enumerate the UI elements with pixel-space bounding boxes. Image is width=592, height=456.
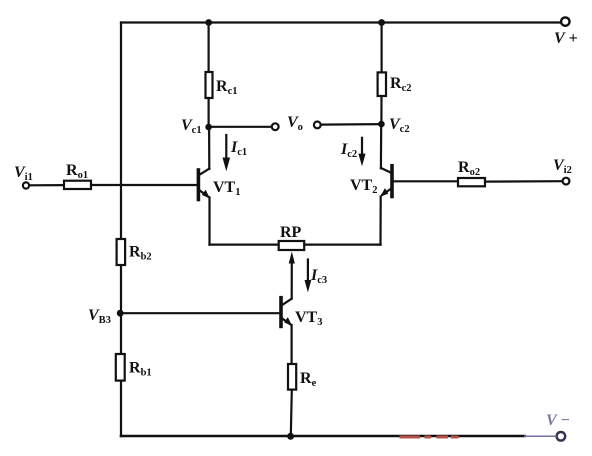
terminal Vo left: [272, 123, 279, 130]
terminal V+: [561, 17, 569, 25]
terminal V-: [557, 432, 566, 441]
wire VT2 collector: [380, 124, 383, 168]
node Vc1: [205, 124, 212, 131]
svg-text:V +: V +: [554, 30, 578, 47]
wire Rc2 to Vc2: [380, 96, 382, 124]
wire VB3 to VT3 base: [120, 312, 279, 314]
resistor Rb2: [117, 239, 126, 265]
wire VT2 emitter to RP: [304, 244, 380, 246]
node junction top Rc2: [378, 19, 385, 26]
svg-text:RP: RP: [280, 224, 302, 241]
wire VT1 emitter to RP: [210, 244, 279, 246]
wire top rail: [121, 21, 561, 23]
current arrow Ic3: [305, 260, 312, 293]
wire Ro1 to VT1 base: [91, 184, 197, 186]
node junction bottom Re: [287, 433, 294, 440]
transistor VT2: [380, 166, 392, 197]
svg-text:V −: V −: [546, 412, 570, 429]
terminal Vi2: [563, 178, 570, 185]
node Vc2: [378, 121, 385, 128]
wire VT1 collector: [208, 127, 210, 169]
transistor VT1: [198, 169, 210, 200]
transistor VT3: [281, 298, 292, 327]
wire Re to bottom rail: [291, 390, 292, 436]
wire Rc1 to Vc1: [208, 98, 210, 127]
resistor Rc1: [206, 72, 213, 98]
resistor Rb1: [116, 354, 125, 381]
wire left rail: [120, 23, 122, 437]
resistor Ro1: [64, 181, 91, 189]
resistor Ro2: [458, 178, 485, 186]
wire VT2 base to Ro2: [394, 180, 458, 182]
wire bottom rail faded segment: [524, 435, 557, 437]
wire Ro2 to Vi2: [485, 180, 563, 183]
potentiometer RP wiper arrow: [289, 252, 295, 299]
wire Vc1 to Vo terminal: [209, 126, 272, 128]
current arrow Ic1: [223, 135, 231, 171]
wire Vo terminal to Vc2: [321, 123, 382, 126]
potentiometer RP: [279, 241, 305, 250]
wire Vi1 to Ro1: [29, 184, 64, 186]
wire Rc1 branch top: [208, 23, 210, 73]
wire VT1 emitter down: [208, 198, 210, 245]
wire VT3 emitter to Re: [291, 325, 293, 364]
node VB3: [117, 310, 124, 317]
terminal Vo right: [314, 122, 321, 129]
terminal Vi1: [23, 182, 29, 188]
wire bottom rail: [121, 435, 525, 438]
resistor Re: [288, 364, 296, 390]
wire VT2 emitter down: [379, 197, 381, 245]
resistor Rc2: [378, 72, 386, 96]
node junction top Rc1: [205, 19, 212, 26]
wire Rc2 branch top: [381, 23, 383, 73]
current arrow Ic2: [358, 138, 365, 167]
